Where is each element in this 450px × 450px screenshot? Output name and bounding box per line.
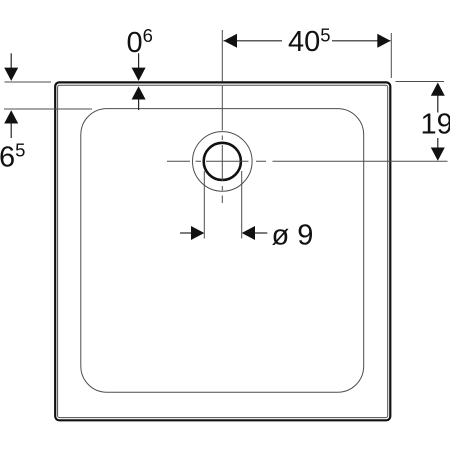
drain outer circle <box>193 132 253 192</box>
arrow dia 9 right <box>242 226 255 240</box>
tray outer edge <box>55 82 390 420</box>
arrow 40.5 left <box>224 34 237 48</box>
dimension 0.6 down arrow <box>138 53 140 68</box>
dimension 6.5 up arrow <box>4 110 18 123</box>
svg-text:19: 19 <box>421 108 450 140</box>
extension line basin rim (6.5 dim) <box>4 108 92 110</box>
dimension line 40.5 <box>224 40 391 42</box>
drain horizontal centerline <box>167 160 448 162</box>
extension line right top (19 dim) <box>396 81 445 83</box>
extension line top-left outer edge <box>5 81 52 83</box>
dimension 6.5 down arrow <box>10 53 12 68</box>
basin edge <box>81 109 364 393</box>
dimension line 19 <box>437 95 439 148</box>
arrow 19 up <box>431 83 445 96</box>
svg-text:ø 9: ø 9 <box>272 220 314 252</box>
tray inner rim line <box>58 85 388 417</box>
extension line drain left (dia 9) <box>203 171 205 239</box>
drain inner circle <box>204 143 241 180</box>
arrow 40.5 right <box>377 34 390 48</box>
extension line drain right (dia 9) <box>241 171 243 239</box>
dimension 0.6 up arrow <box>132 86 146 99</box>
arrow dia 9 left <box>191 226 204 240</box>
drain vertical centerline <box>221 30 223 203</box>
arrow 19 down <box>431 148 445 161</box>
dimension line dia 9 right <box>255 232 268 234</box>
dimension line dia 9 left <box>180 232 192 234</box>
extension line right vertical (40.5 dim) <box>390 33 392 78</box>
